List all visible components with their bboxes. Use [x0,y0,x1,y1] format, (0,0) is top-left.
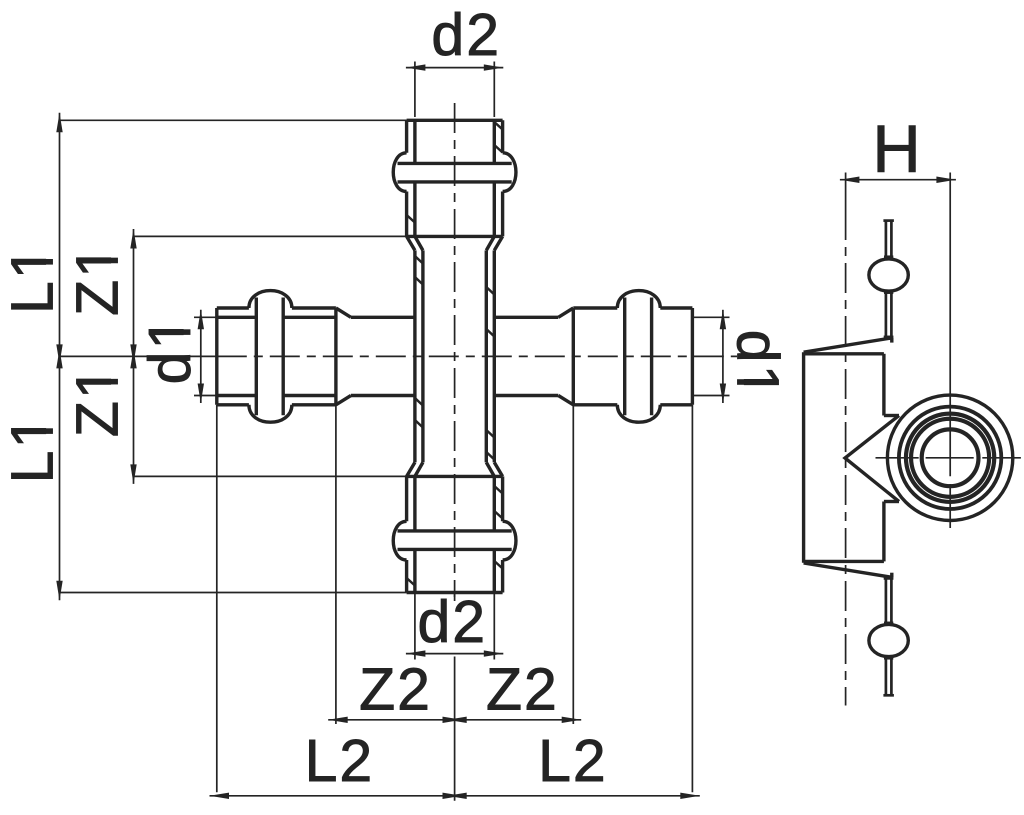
svg-text:d1: d1 [137,315,203,385]
svg-text:Z1: Z1 [65,243,131,316]
svg-text:d2: d2 [431,2,501,68]
svg-text:d1: d1 [725,330,791,400]
svg-text:L1: L1 [0,244,66,314]
svg-text:L2: L2 [305,728,375,794]
svg-text:L2: L2 [538,728,608,794]
svg-text:Z1: Z1 [65,364,131,437]
svg-text:H: H [872,112,922,187]
svg-text:L1: L1 [0,414,66,484]
svg-text:Z2: Z2 [359,657,432,723]
svg-text:d2: d2 [417,589,487,655]
svg-text:Z2: Z2 [486,657,559,723]
